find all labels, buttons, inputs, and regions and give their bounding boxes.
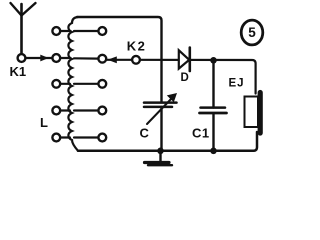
diode D cathode bar <box>189 48 192 72</box>
tap row 4 right circle <box>98 107 106 115</box>
svg-text:EJ: EJ <box>229 78 245 90</box>
svg-text:L: L <box>40 115 48 130</box>
terminal K1 <box>18 54 26 62</box>
earphone EJ body <box>245 97 259 128</box>
tap row 5 stubs <box>60 136 98 138</box>
svg-text:C: C <box>140 126 150 141</box>
svg-text:5: 5 <box>248 25 256 40</box>
bottom rail wire <box>78 132 257 151</box>
tap row 3 left circle <box>52 80 60 88</box>
junction dot at C1 bottom <box>210 148 217 155</box>
svg-text:D: D <box>181 72 189 84</box>
tap row 1 stubs <box>60 30 98 32</box>
tap row 1 left circle <box>52 27 60 35</box>
variable capacitor C bottom plate <box>144 106 172 109</box>
wire K2 row (tap to diode to EJ corner) <box>107 60 256 94</box>
capacitor C1 top plate <box>201 106 226 109</box>
junction dot (diode output node) <box>210 57 217 64</box>
variable capacitor C top plate <box>144 101 177 104</box>
arrow on K1 wire <box>40 55 48 62</box>
wire C bottom to ground rail <box>160 107 162 151</box>
svg-text:C1: C1 <box>192 126 210 141</box>
tap row 3 right circle <box>98 80 106 88</box>
top rail wire (coil top to C branch) <box>77 17 162 102</box>
variable capacitor C arrow <box>147 99 172 125</box>
tap row 1 right circle <box>98 27 106 35</box>
tap row 5 left circle <box>52 134 60 142</box>
terminal K2 <box>132 56 140 64</box>
tap row 4 left circle <box>52 107 60 115</box>
diode D triangle <box>179 50 189 68</box>
tap row 3 stubs <box>60 83 98 85</box>
arrow on K2 wire <box>108 56 117 63</box>
coil L (squiggle winding) <box>68 17 78 151</box>
earphone EJ crystal bar <box>258 93 263 134</box>
tap row 2 stubs <box>60 57 98 60</box>
ground bar 1 <box>145 161 170 164</box>
junction dot at ground <box>157 148 164 155</box>
ground bar 2 <box>148 164 172 166</box>
antenna <box>11 3 36 54</box>
tap row 5 right circle <box>98 134 106 142</box>
capacitor C1 bottom plate <box>200 112 227 115</box>
capacitor C1 bottom wire <box>212 114 214 152</box>
tap row 2 right circle <box>98 55 106 63</box>
capacitor C1 top wire <box>212 61 214 108</box>
wire K1 to coil tap <box>26 57 53 59</box>
ground stub <box>159 151 161 161</box>
svg-text:K1: K1 <box>10 64 27 79</box>
svg-text:K2: K2 <box>127 38 146 53</box>
figure badge circle 5 <box>241 20 263 45</box>
tap row 4 stubs <box>60 109 98 111</box>
tap row 2 left circle <box>52 54 60 62</box>
